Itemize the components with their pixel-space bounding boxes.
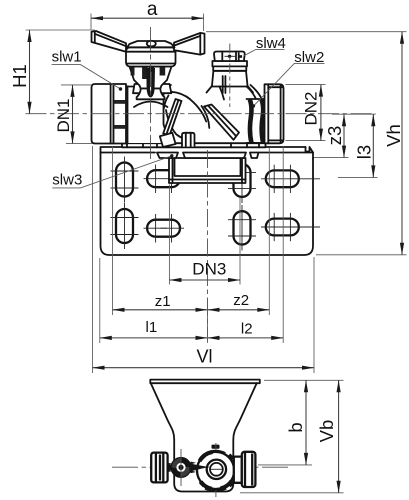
- dimension DN2: [286, 85, 326, 141]
- svg-text:DN3: DN3: [192, 260, 226, 279]
- bottom valve: hose tail end cap (left): [151, 453, 167, 483]
- bottom valve: ball body front circle: [197, 443, 235, 497]
- valve foot strip on plate: [122, 143, 266, 147]
- svg-text:z2: z2: [233, 292, 249, 309]
- svg-text:slw1: slw1: [52, 48, 82, 65]
- label slw2 with leader: [252, 49, 325, 108]
- slot (vertical, top-left): [111, 157, 139, 203]
- slot (vertical, top middle-right, partly under clamp): [228, 158, 256, 203]
- vent valve neck (slw4): [207, 71, 254, 100]
- dimension z1: [113, 146, 208, 315]
- right wing: [174, 33, 205, 55]
- svg-text:Vb: Vb: [316, 420, 337, 443]
- funnel (front view): [150, 380, 259, 492]
- slot (horizontal, top middle-left, partly under clamp): [144, 165, 185, 194]
- slot (horizontal, top-right): [261, 165, 320, 193]
- dimension Vl: [93, 146, 315, 373]
- vent valve flange: [212, 61, 247, 71]
- dimension Vh: [206, 32, 407, 255]
- mounting plate outline: [101, 147, 314, 255]
- body block left: [127, 85, 171, 143]
- right shoulder: [247, 85, 262, 100]
- label slw1 with leader: [52, 48, 123, 90]
- hose coupling sleeve (left): [92, 84, 114, 144]
- dimension b: [258, 380, 344, 465]
- collar at outlet (slw2 target): [246, 99, 266, 143]
- horizontal pipe centerline (side view): [26, 113, 376, 115]
- svg-text:DN2: DN2: [302, 91, 321, 125]
- right support gusset: [204, 105, 239, 140]
- svg-text:z1: z1: [155, 293, 171, 310]
- svg-text:Vl: Vl: [197, 347, 213, 367]
- vent valve square head: [214, 52, 245, 62]
- dimension DN1: [54, 85, 92, 143]
- dimension z2: [208, 148, 270, 315]
- vent valve centerline: [229, 44, 231, 108]
- svg-text:DN1: DN1: [54, 98, 73, 132]
- dimension a: [91, 0, 204, 31]
- svg-text:z3: z3: [324, 126, 345, 146]
- funnel clamp (slw3): [169, 158, 246, 183]
- bonnet band: [133, 84, 171, 93]
- svg-text:l3: l3: [354, 145, 375, 159]
- left support leg: [160, 99, 182, 147]
- svg-text:slw3: slw3: [52, 172, 82, 189]
- handle lower band: [126, 47, 176, 66]
- outlet socket (right): [265, 84, 284, 143]
- svg-text:a: a: [147, 0, 158, 20]
- clamp top tabs on plate: [157, 153, 259, 159]
- ball housing sphere: [164, 92, 210, 140]
- bottom valve: right wing cone: [190, 462, 211, 474]
- dark stop tongue: [146, 68, 155, 97]
- handle cap: [127, 41, 175, 48]
- slot (vertical, bottom middle-right): [228, 205, 256, 251]
- slot (horizontal, bottom-right): [261, 213, 320, 241]
- dimension H1: [9, 30, 95, 114]
- dimension z3: [314, 114, 376, 157]
- label slw3 with leader: [52, 154, 173, 189]
- coupling nut (slw1): [114, 84, 127, 144]
- funnel axis extension through z/l dims: [207, 300, 209, 343]
- label slw4 with leader: [244, 35, 286, 56]
- svg-text:H1: H1: [9, 64, 30, 88]
- funnel axis centerline (side view): [207, 150, 209, 341]
- dimension DN3: [169, 185, 240, 285]
- vertical stem centerline: [150, 27, 152, 160]
- bottom valve: wing handle edge-on (bowtie): [168, 449, 191, 486]
- bonnet dome: [134, 102, 168, 108]
- dimension l2: [208, 146, 284, 343]
- svg-text:l2: l2: [241, 320, 253, 337]
- dimension Vb: [240, 380, 344, 493]
- bottom valve centerline: [112, 466, 290, 468]
- svg-text:b: b: [285, 422, 306, 432]
- left wing: [92, 31, 127, 52]
- dimension l3: [338, 114, 378, 177]
- slot (vertical, bottom-left): [111, 203, 139, 249]
- stem with ribs: [130, 67, 172, 89]
- slot (horizontal, bottom middle-left): [144, 214, 185, 243]
- svg-text:Vh: Vh: [383, 124, 404, 147]
- stem trumpet flare: [137, 89, 165, 100]
- small rib block: [182, 133, 195, 147]
- svg-text:l1: l1: [146, 319, 158, 336]
- dimension l1: [100, 258, 208, 343]
- bottom valve: outlet neck and end cap (right): [234, 452, 256, 487]
